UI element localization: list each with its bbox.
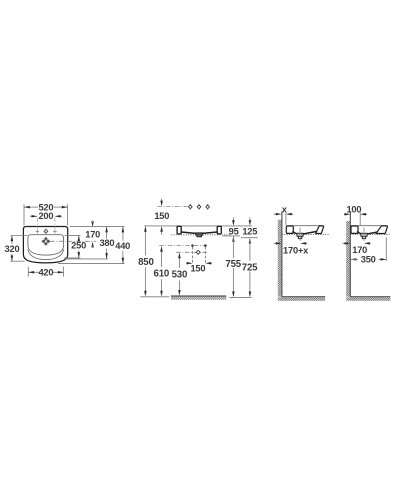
dim 170+x xyxy=(274,242,280,244)
svg-text:100: 100 xyxy=(346,204,361,214)
svg-text:170: 170 xyxy=(85,229,100,239)
drain symbol plan xyxy=(42,237,50,245)
svg-text:170: 170 xyxy=(352,245,367,255)
side view 1 drain xyxy=(297,233,303,236)
side view 2 rim line xyxy=(351,225,388,227)
dim 725 xyxy=(249,238,252,244)
svg-text:150: 150 xyxy=(190,263,205,273)
dim 125 bottom extension xyxy=(241,237,258,239)
floor extension left xyxy=(140,296,169,298)
tap hole center diamond xyxy=(44,229,48,233)
side view 1 rim line xyxy=(286,225,323,227)
side view 2 front lip xyxy=(376,226,387,234)
washbasin plan view - outer silhouette xyxy=(23,227,67,263)
fixing hole dots xyxy=(191,245,193,247)
dim x right extension xyxy=(285,211,287,225)
svg-text:200: 200 xyxy=(38,211,53,221)
side view 2 dotted line xyxy=(350,234,389,236)
front view basin left cap xyxy=(177,226,181,234)
side view 1 bowl bottom xyxy=(293,232,297,234)
side view 2 floor line xyxy=(350,296,390,298)
dim 420 xyxy=(28,271,39,273)
drain centerline dash-dot xyxy=(50,240,96,242)
svg-text:380: 380 xyxy=(99,238,114,248)
side view 2 back cap xyxy=(351,226,358,233)
side view 1 wall line xyxy=(281,211,283,296)
front view dotted wall line xyxy=(171,234,230,236)
dim 610 xyxy=(161,248,163,266)
plan right extension line top xyxy=(70,226,125,228)
dim 250 plan xyxy=(78,236,80,241)
front view basin right cap xyxy=(217,226,221,234)
front view bowl bottom edges xyxy=(181,232,196,233)
front view tap centerline dash-dot xyxy=(157,206,187,208)
wall fixing holes dash-dot xyxy=(159,245,206,247)
svg-text:x: x xyxy=(282,204,288,214)
svg-text:95: 95 xyxy=(229,226,239,236)
side view 2 drain axis dash-dot xyxy=(363,228,365,242)
floor extension right xyxy=(229,297,251,299)
dim 520 extension lines xyxy=(23,204,25,225)
supply diamond xyxy=(196,250,200,254)
side view 2 drain xyxy=(361,233,367,236)
supply dash-dot line xyxy=(176,251,206,253)
dim 755 xyxy=(232,236,235,242)
dim 380 plan xyxy=(106,227,108,239)
svg-text:320: 320 xyxy=(5,244,20,254)
front view top extension line xyxy=(144,225,252,227)
dim 850 xyxy=(144,228,146,255)
svg-text:755: 755 xyxy=(225,259,241,270)
svg-text:610: 610 xyxy=(154,268,170,279)
tap hole right cross xyxy=(53,230,57,232)
side view 1 dotted line xyxy=(282,234,329,236)
dim 100 right extension xyxy=(359,211,361,225)
plan extension 380 bottom xyxy=(65,258,109,260)
dim 150 horizontal xyxy=(186,262,191,264)
side view 1 drain axis dash-dot xyxy=(299,228,301,242)
dim 320 extension lines xyxy=(10,235,27,237)
dim 350 right extension xyxy=(385,237,387,261)
svg-text:420: 420 xyxy=(38,267,53,277)
side view 1 floor line xyxy=(282,296,325,298)
dim 320 xyxy=(11,236,13,244)
svg-text:850: 850 xyxy=(138,257,154,268)
side view 1 back cap xyxy=(286,226,293,233)
front view tap hole diamonds xyxy=(188,205,192,209)
dim 440 plan xyxy=(122,227,124,241)
dim 350 xyxy=(351,258,357,261)
dim 530 xyxy=(178,255,180,268)
tap hole left cross xyxy=(36,230,40,232)
plan extension 250 bottom xyxy=(64,257,81,259)
side view 1 front lip xyxy=(316,226,324,234)
front view drain box xyxy=(196,233,203,235)
dim 170 plan xyxy=(91,221,94,227)
plan front edge arc xyxy=(28,250,64,260)
plan extension inner-rim-top right xyxy=(65,235,81,237)
svg-text:440: 440 xyxy=(115,241,130,251)
dim 200 xyxy=(30,215,37,217)
dim 125 xyxy=(249,217,251,223)
svg-text:350: 350 xyxy=(361,255,376,265)
dim 95 xyxy=(232,217,234,223)
svg-text:125: 125 xyxy=(242,226,257,236)
dim 420 extension lines xyxy=(27,267,29,277)
svg-text:725: 725 xyxy=(242,263,258,274)
dim 95 bottom extension xyxy=(222,235,240,237)
dim 200 tap centerlines dash-dot xyxy=(36,218,38,229)
svg-text:530: 530 xyxy=(172,270,188,281)
side view 2 wall line xyxy=(349,211,351,296)
svg-text:170+x: 170+x xyxy=(283,245,309,255)
dim 150 vertical xyxy=(161,199,163,203)
dim 520 xyxy=(24,206,38,208)
plan extension 440 bottom xyxy=(58,263,125,265)
svg-text:150: 150 xyxy=(154,211,169,221)
plan inner rim xyxy=(28,235,64,255)
svg-text:250: 250 xyxy=(71,241,86,251)
fixing hole drop lines dashed xyxy=(192,247,194,264)
dim 170 side xyxy=(342,242,348,244)
side view 2 bowl bottom xyxy=(358,232,362,234)
floor line xyxy=(171,295,226,297)
